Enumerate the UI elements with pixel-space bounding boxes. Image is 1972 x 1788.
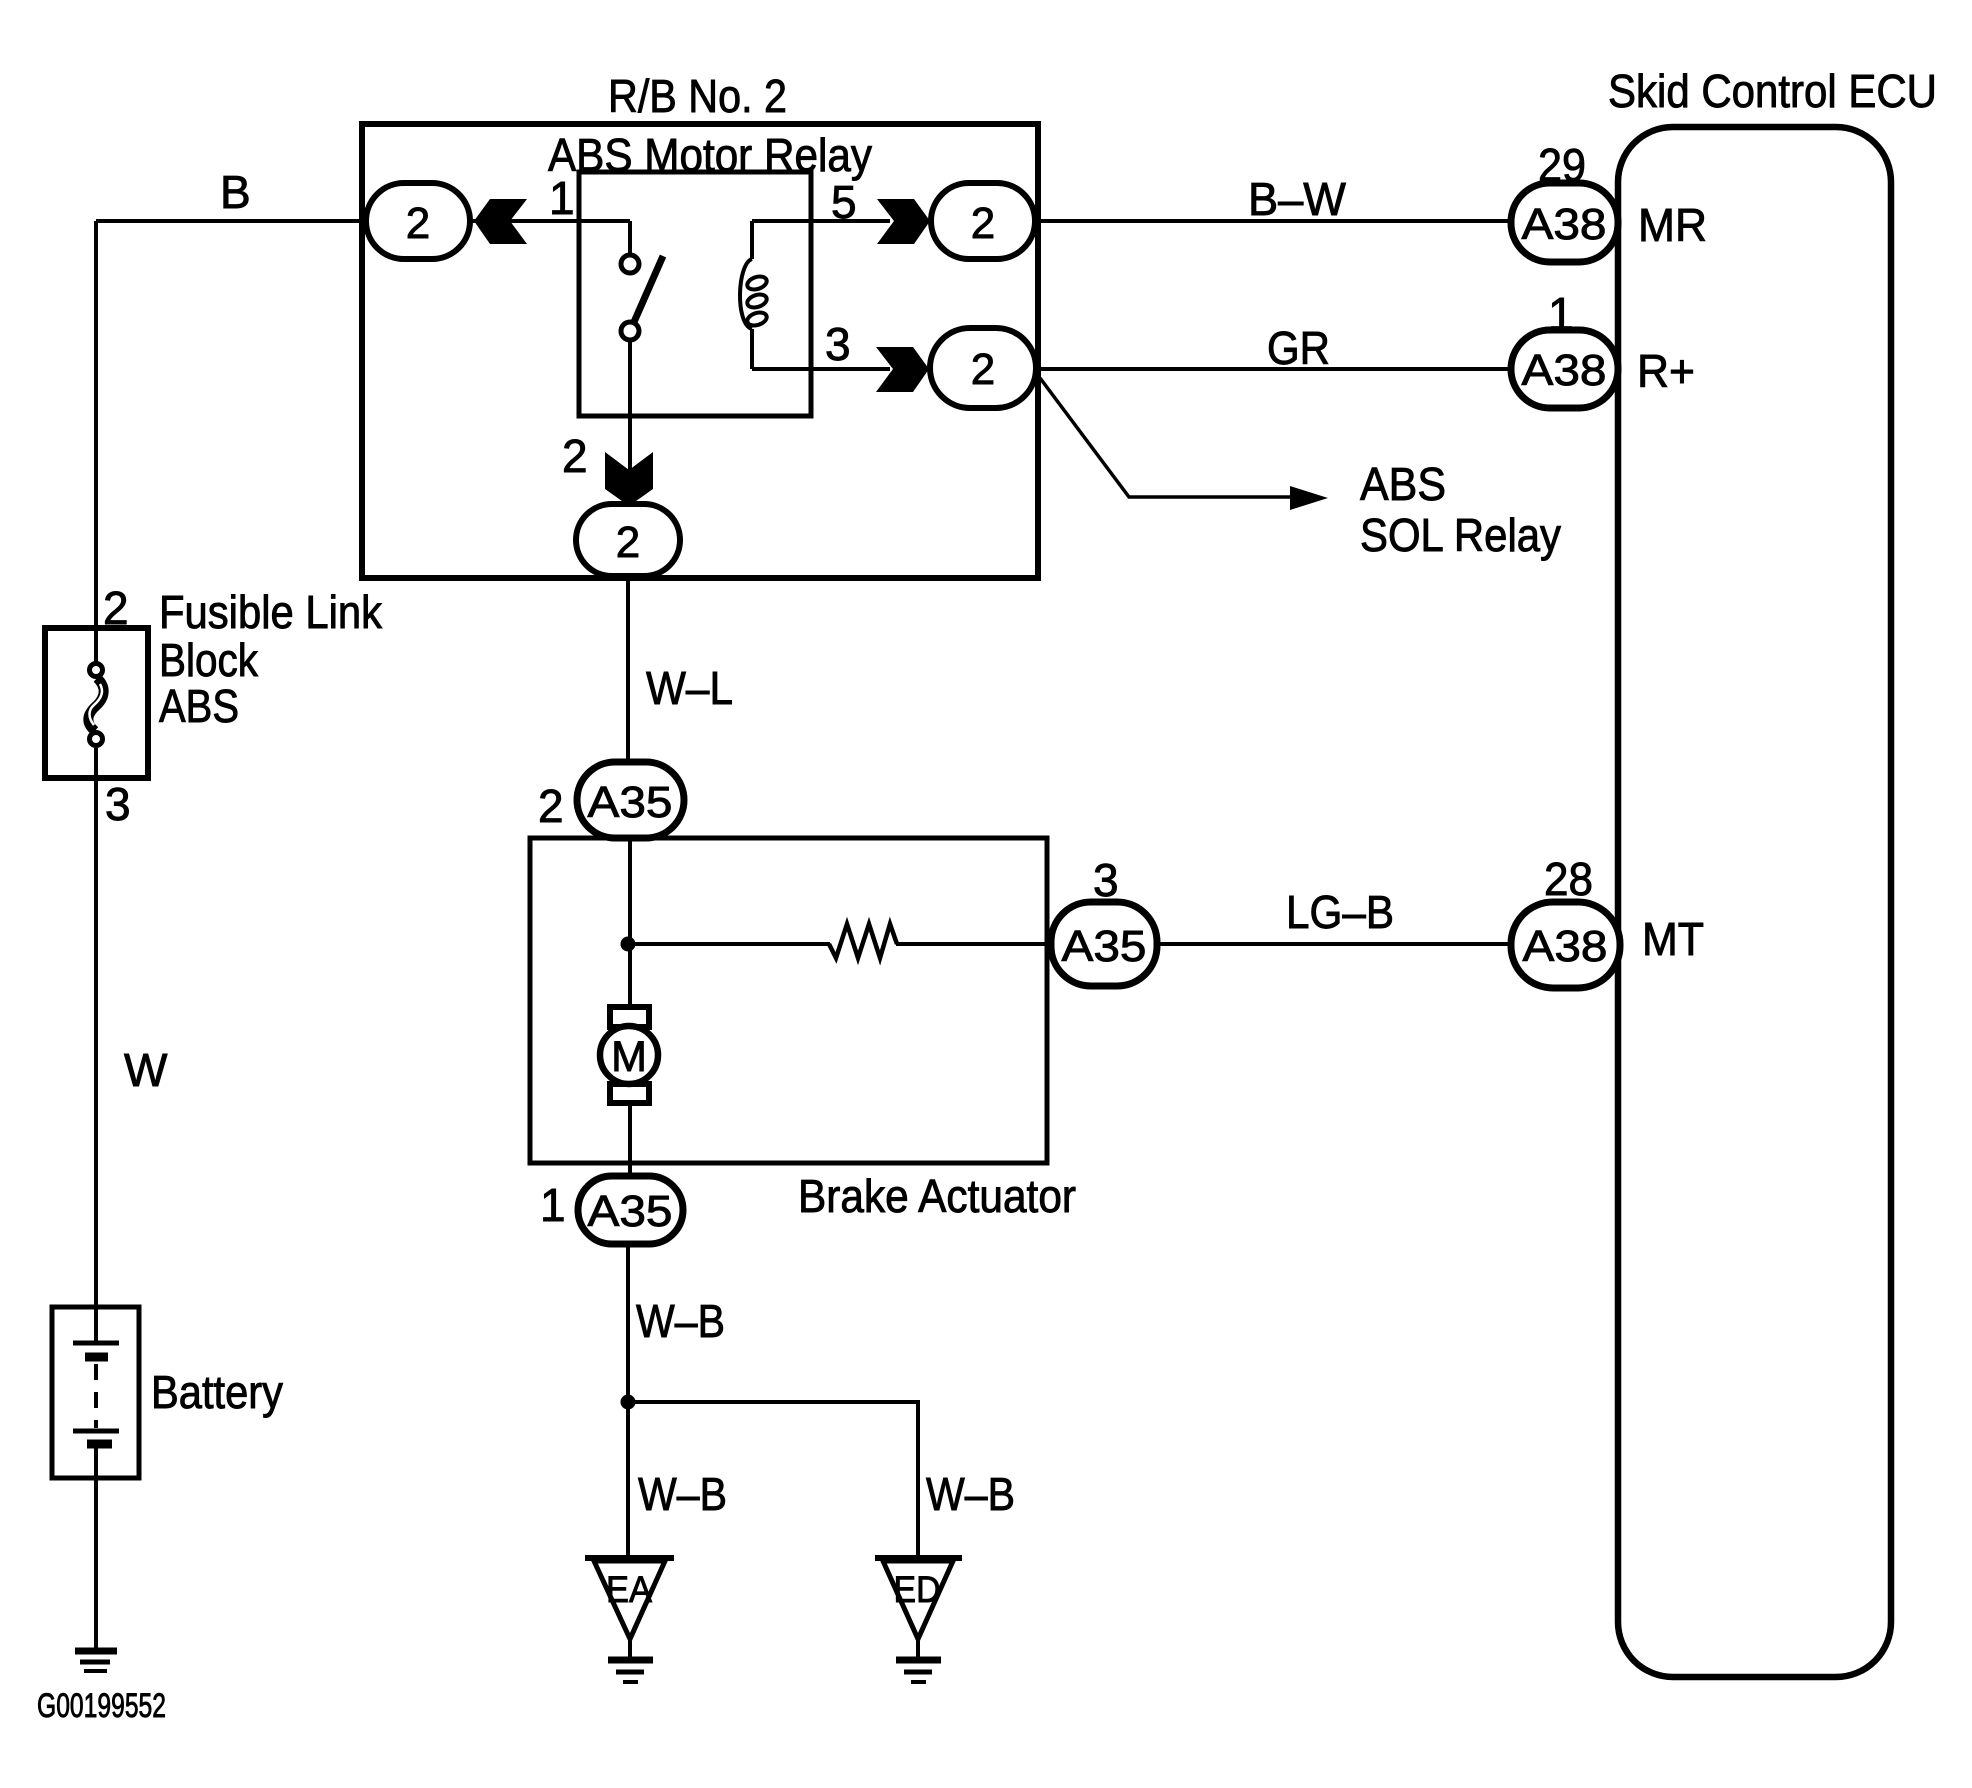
svg-text:Battery: Battery xyxy=(151,1366,283,1418)
svg-text:G00199552: G00199552 xyxy=(37,1687,166,1725)
svg-text:2: 2 xyxy=(562,430,588,482)
svg-text:3: 3 xyxy=(105,778,131,830)
svg-text:GR: GR xyxy=(1267,322,1330,374)
svg-text:A38: A38 xyxy=(1522,200,1607,249)
connector A35 pin2 xyxy=(577,762,684,838)
connector A35 pin1 xyxy=(578,1176,683,1244)
wire B-W connector2 to A38 pin29 xyxy=(1035,219,1511,223)
svg-text:A38: A38 xyxy=(1523,922,1608,971)
wire junction to ED branch xyxy=(628,1402,918,1558)
arrow right toward connector 5 xyxy=(877,199,930,244)
connector A38 pin29 xyxy=(1511,183,1618,262)
svg-text:R+: R+ xyxy=(1637,345,1695,397)
connector oval 2 bottom xyxy=(576,504,680,576)
svg-text:R/B No. 2: R/B No. 2 xyxy=(608,70,787,122)
svg-text:A35: A35 xyxy=(1062,922,1147,971)
svg-text:B–W: B–W xyxy=(1248,173,1347,225)
svg-text:2: 2 xyxy=(971,199,995,248)
switch bottom contact xyxy=(621,322,639,340)
connector oval 2 pin5 xyxy=(931,183,1035,259)
wire W-L connector2 to A35 pin2 xyxy=(626,576,630,764)
ground triangle ED xyxy=(875,1558,962,1639)
connector A38 pin1 xyxy=(1511,330,1618,408)
wire relay pin5 to connector xyxy=(752,219,890,223)
svg-text:ED: ED xyxy=(894,1569,941,1610)
battery dashed center xyxy=(94,1364,98,1428)
svg-text:2: 2 xyxy=(971,345,995,394)
wire GR connector2 to A38 pin1 xyxy=(1036,367,1511,371)
svg-text:LG–B: LG–B xyxy=(1286,886,1394,938)
arrow right toward connector 3 xyxy=(876,347,929,392)
wire relay pin1 to connector 2 xyxy=(470,219,630,223)
wire relay coil bottom xyxy=(750,329,754,369)
wire into fuse top contact xyxy=(94,628,98,662)
svg-text:W–L: W–L xyxy=(646,662,733,714)
svg-text:ABS: ABS xyxy=(159,680,239,732)
brake actuator box xyxy=(530,838,1047,1163)
battery plate short top xyxy=(85,1353,108,1362)
svg-text:ABS: ABS xyxy=(1360,458,1446,510)
connector A38 pin28 xyxy=(1511,902,1620,988)
fuse bottom contact xyxy=(90,733,103,746)
svg-text:W–B: W–B xyxy=(636,1295,725,1347)
wire from fuse bottom contact xyxy=(94,748,98,778)
fuse top contact xyxy=(90,664,103,677)
junction ground split xyxy=(621,1395,636,1410)
svg-text:W–B: W–B xyxy=(638,1468,727,1520)
resistor pump motor xyxy=(829,924,897,958)
arrow down toward connector 2 bottom xyxy=(605,452,653,506)
svg-text:B: B xyxy=(220,166,251,218)
battery BAT box xyxy=(52,1307,139,1478)
connector A35 pin3 xyxy=(1051,902,1157,986)
svg-text:2: 2 xyxy=(616,518,640,567)
svg-text:1: 1 xyxy=(540,1179,566,1231)
junction block R/B No.2 box xyxy=(362,124,1038,578)
battery internal top lead xyxy=(94,1307,98,1343)
svg-text:Brake Actuator: Brake Actuator xyxy=(798,1170,1076,1222)
svg-text:Block: Block xyxy=(159,634,259,686)
svg-text:A35: A35 xyxy=(588,1187,673,1236)
battery internal bottom lead xyxy=(94,1448,98,1478)
connector oval 2 pin3 xyxy=(930,328,1036,408)
svg-text:3: 3 xyxy=(825,318,851,370)
wire relay coil top xyxy=(750,221,754,259)
svg-text:28: 28 xyxy=(1544,853,1593,905)
wire W-B A35 pin1 down xyxy=(626,1244,630,1558)
ground triangle EA xyxy=(585,1558,674,1639)
wire A35 pin2 to motor xyxy=(628,838,632,1009)
wire junction to resistor xyxy=(628,942,830,946)
svg-text:EA: EA xyxy=(606,1569,652,1610)
arrow left toward connector 2 xyxy=(474,199,527,244)
wire resistor to A35 pin3 xyxy=(896,942,1053,946)
motor M pump xyxy=(600,1007,658,1103)
battery plate long bottom xyxy=(73,1429,119,1434)
svg-text:MT: MT xyxy=(1642,913,1704,965)
battery plate short bottom xyxy=(87,1440,112,1449)
wire W vertical fusible link to battery xyxy=(94,778,98,1307)
svg-text:2: 2 xyxy=(406,199,430,248)
skid control ECU box xyxy=(1618,127,1891,1677)
wire motor to A35 pin1 xyxy=(628,1103,632,1178)
wire B horizontal battery to R/B xyxy=(96,219,366,223)
ground EA stub and bars xyxy=(608,1641,653,1682)
switch top contact xyxy=(621,255,639,273)
svg-text:W: W xyxy=(124,1044,168,1096)
wire left vertical B down to fusible link xyxy=(94,221,98,630)
svg-text:A35: A35 xyxy=(588,778,673,827)
wire battery to ground xyxy=(94,1478,98,1650)
svg-text:SOL Relay: SOL Relay xyxy=(1360,509,1561,561)
callout line to ABS SOL relay xyxy=(1040,378,1293,497)
svg-text:3: 3 xyxy=(1093,854,1119,906)
callout arrowhead xyxy=(1290,486,1328,510)
svg-text:M: M xyxy=(611,1033,647,1081)
svg-text:1: 1 xyxy=(549,172,575,224)
fusible link block FL box xyxy=(45,628,148,778)
relay K1 ABS motor relay box xyxy=(579,172,811,416)
fusible link element xyxy=(88,678,103,731)
switch blade xyxy=(634,256,663,322)
wire relay pin3 to connector xyxy=(752,367,890,371)
svg-text:W–B: W–B xyxy=(926,1468,1015,1520)
connector oval 2 left xyxy=(366,183,470,259)
svg-text:2: 2 xyxy=(538,780,564,832)
battery plate long top xyxy=(73,1341,119,1346)
relay coil xyxy=(740,259,768,329)
svg-text:Skid Control ECU: Skid Control ECU xyxy=(1608,65,1937,117)
ground ED stub and bars xyxy=(896,1641,941,1682)
svg-text:Fusible Link: Fusible Link xyxy=(159,586,383,638)
svg-text:A38: A38 xyxy=(1522,346,1607,395)
junction motor node xyxy=(621,937,636,952)
wire switch to pin2 connector xyxy=(628,340,632,506)
ground battery xyxy=(75,1651,117,1671)
wire LG-B A35 to A38 pin28 xyxy=(1157,942,1511,946)
wire down to switch contact xyxy=(628,221,632,256)
svg-text:MR: MR xyxy=(1638,199,1707,251)
